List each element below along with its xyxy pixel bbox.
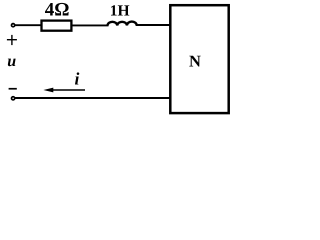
wire: inductor to network N [136,24,170,26]
svg-text:u: u [7,53,16,70]
svg-text:i: i [75,68,80,88]
resistor 4Ω (box) [42,21,72,31]
wire: network N to bottom terminal [15,97,170,99]
terminal (bottom-left) [12,97,15,100]
network N (box) [170,5,228,113]
minus sign (-) [9,88,17,90]
wire: top terminal to resistor R [15,24,41,26]
plus sign (+) [7,35,17,45]
svg-text:N: N [189,51,201,70]
svg-text:4Ω: 4Ω [45,0,70,21]
wire: resistor to inductor [73,24,109,26]
terminal (top-left) [12,24,15,27]
current arrow i (pointing left) [43,88,85,93]
inductor 1H (coil, 3 arcs) [108,22,137,26]
svg-text:1H: 1H [110,2,130,19]
